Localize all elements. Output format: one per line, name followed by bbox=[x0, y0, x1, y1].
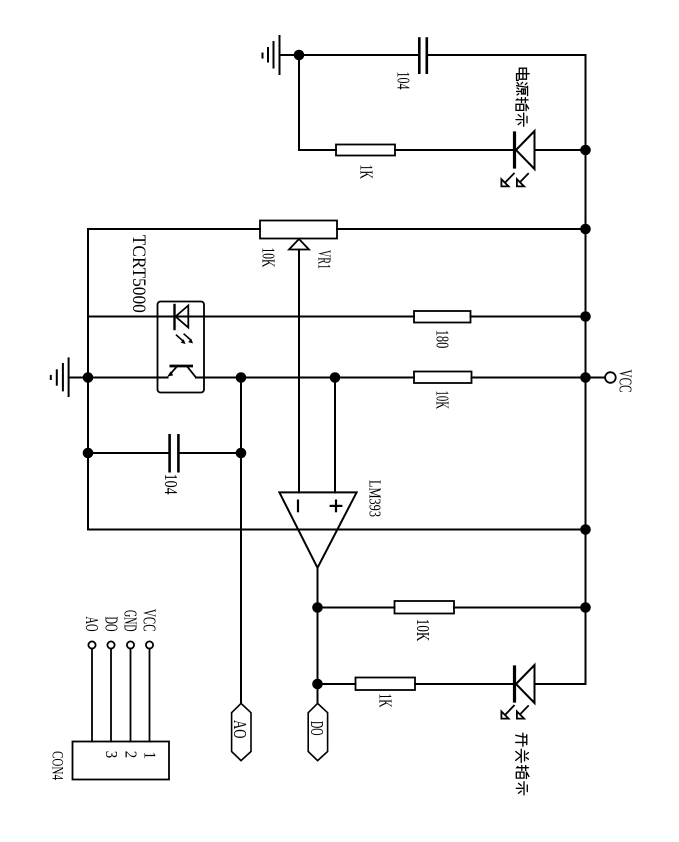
svg-text:1K: 1K bbox=[356, 165, 375, 180]
LED D1 emission arrows bbox=[501, 174, 528, 187]
wire plus node to 10K bbox=[335, 377, 414, 379]
node 180 right junction bbox=[580, 311, 591, 322]
node VCC junction bbox=[580, 372, 591, 383]
wire cap2 row left bbox=[88, 452, 170, 454]
svg-text:AO: AO bbox=[229, 720, 248, 739]
wire 180 row left bbox=[88, 316, 414, 318]
svg-text:VCC: VCC bbox=[615, 370, 634, 393]
wire output to 1K bbox=[318, 683, 356, 685]
wire left bus bbox=[87, 229, 89, 530]
svg-text:2: 2 bbox=[121, 751, 139, 758]
node ground junction bbox=[83, 372, 94, 383]
wire cap2 row right bbox=[178, 452, 241, 454]
node cap2 right junction bbox=[236, 448, 247, 459]
resistor 1K (power LED) bbox=[336, 145, 395, 156]
wire 180 row right bbox=[471, 316, 586, 318]
capacitor 104 (top) bbox=[419, 39, 427, 73]
wire 10K to VCC bbox=[472, 377, 586, 379]
node feedback right junction bbox=[580, 524, 591, 535]
wire op-amp output bbox=[317, 568, 319, 704]
node collector junction bbox=[236, 372, 247, 383]
svg-text:LM393: LM393 bbox=[365, 480, 383, 517]
wire collector node to plus node bbox=[241, 377, 335, 379]
node top-left junction bbox=[294, 50, 305, 61]
resistor 1K (switch LED) bbox=[356, 678, 416, 691]
LED D2 emission arrows bbox=[501, 706, 528, 719]
svg-text:DO: DO bbox=[306, 721, 325, 736]
ground GND1 (top left) bbox=[263, 36, 297, 74]
flag AO bbox=[232, 703, 251, 760]
wire VR1 row left bbox=[88, 228, 260, 230]
wire top row right bbox=[427, 54, 586, 56]
potentiometer VR1 10K bbox=[260, 221, 337, 250]
resistor 180 bbox=[414, 311, 471, 323]
wire collector node down to AO bbox=[240, 378, 242, 704]
svg-text:GND: GND bbox=[120, 610, 140, 632]
wire 1K to LED D2 bbox=[415, 683, 513, 685]
svg-text:10K: 10K bbox=[413, 619, 432, 642]
node 10K right junction bbox=[580, 602, 591, 613]
LED D2 switch indicator bbox=[515, 665, 586, 703]
node output junction 2 bbox=[312, 679, 323, 690]
node output junction 1 bbox=[312, 602, 323, 613]
TCRT5000 LED emission arrows bbox=[177, 334, 194, 344]
wire from top junction down to 1K row bbox=[299, 55, 336, 150]
svg-text:1: 1 bbox=[140, 752, 158, 759]
svg-text:3: 3 bbox=[102, 751, 120, 758]
wire VR1 wiper to op-amp inverting input bbox=[298, 250, 300, 493]
svg-text:DO: DO bbox=[101, 617, 121, 632]
svg-text:180: 180 bbox=[432, 330, 451, 349]
TCRT5000 internal LED bbox=[175, 305, 189, 329]
terminal VCC bbox=[605, 372, 616, 383]
connector CON4 bbox=[73, 641, 170, 779]
wire emitter row bbox=[88, 377, 168, 379]
wire top row left bbox=[299, 54, 419, 56]
node D1 right junction bbox=[580, 145, 591, 156]
svg-text:104: 104 bbox=[161, 474, 180, 495]
node VR1 right junction bbox=[580, 224, 591, 235]
node plus-input junction bbox=[330, 372, 341, 383]
svg-text:VR1: VR1 bbox=[314, 250, 333, 269]
wire output to 10K feedback bbox=[318, 607, 395, 609]
svg-text:AO: AO bbox=[82, 617, 102, 632]
resistor 10K (pull-up) bbox=[414, 372, 472, 384]
svg-text:VCC: VCC bbox=[139, 609, 159, 632]
wire plus node to op-amp non-inverting input bbox=[334, 378, 336, 493]
svg-text:10K: 10K bbox=[258, 248, 277, 268]
label 开关指示 switch indicator bbox=[516, 733, 529, 795]
TCRT5000 phototransistor bbox=[167, 366, 196, 378]
svg-text:104: 104 bbox=[393, 72, 412, 90]
node cap2 left junction bbox=[83, 448, 94, 459]
sensor TCRT5000 box bbox=[158, 302, 205, 393]
svg-text:TCRT5000: TCRT5000 bbox=[129, 235, 151, 313]
wire 1K to LED D1 bbox=[395, 149, 513, 151]
flag DO bbox=[308, 703, 327, 760]
wire feedback row bbox=[88, 529, 586, 531]
svg-text:1K: 1K bbox=[375, 694, 394, 708]
capacitor 104 (filter) bbox=[170, 435, 179, 471]
ground GND2 (left) bbox=[51, 358, 88, 396]
wire right bus bbox=[585, 55, 587, 684]
wire 10K feedback right bbox=[454, 607, 586, 609]
LED D1 power indicator bbox=[515, 131, 586, 169]
wire VCC stub bbox=[586, 377, 606, 379]
label 电源指示 power indicator bbox=[516, 68, 529, 126]
svg-text:CON4: CON4 bbox=[48, 751, 65, 780]
wire VR1 row right bbox=[337, 228, 586, 230]
op-amp U1 LM393 bbox=[279, 492, 356, 567]
wire collector to node bbox=[196, 377, 241, 379]
resistor 10K (feedback) bbox=[395, 601, 455, 614]
svg-text:10K: 10K bbox=[432, 391, 451, 410]
